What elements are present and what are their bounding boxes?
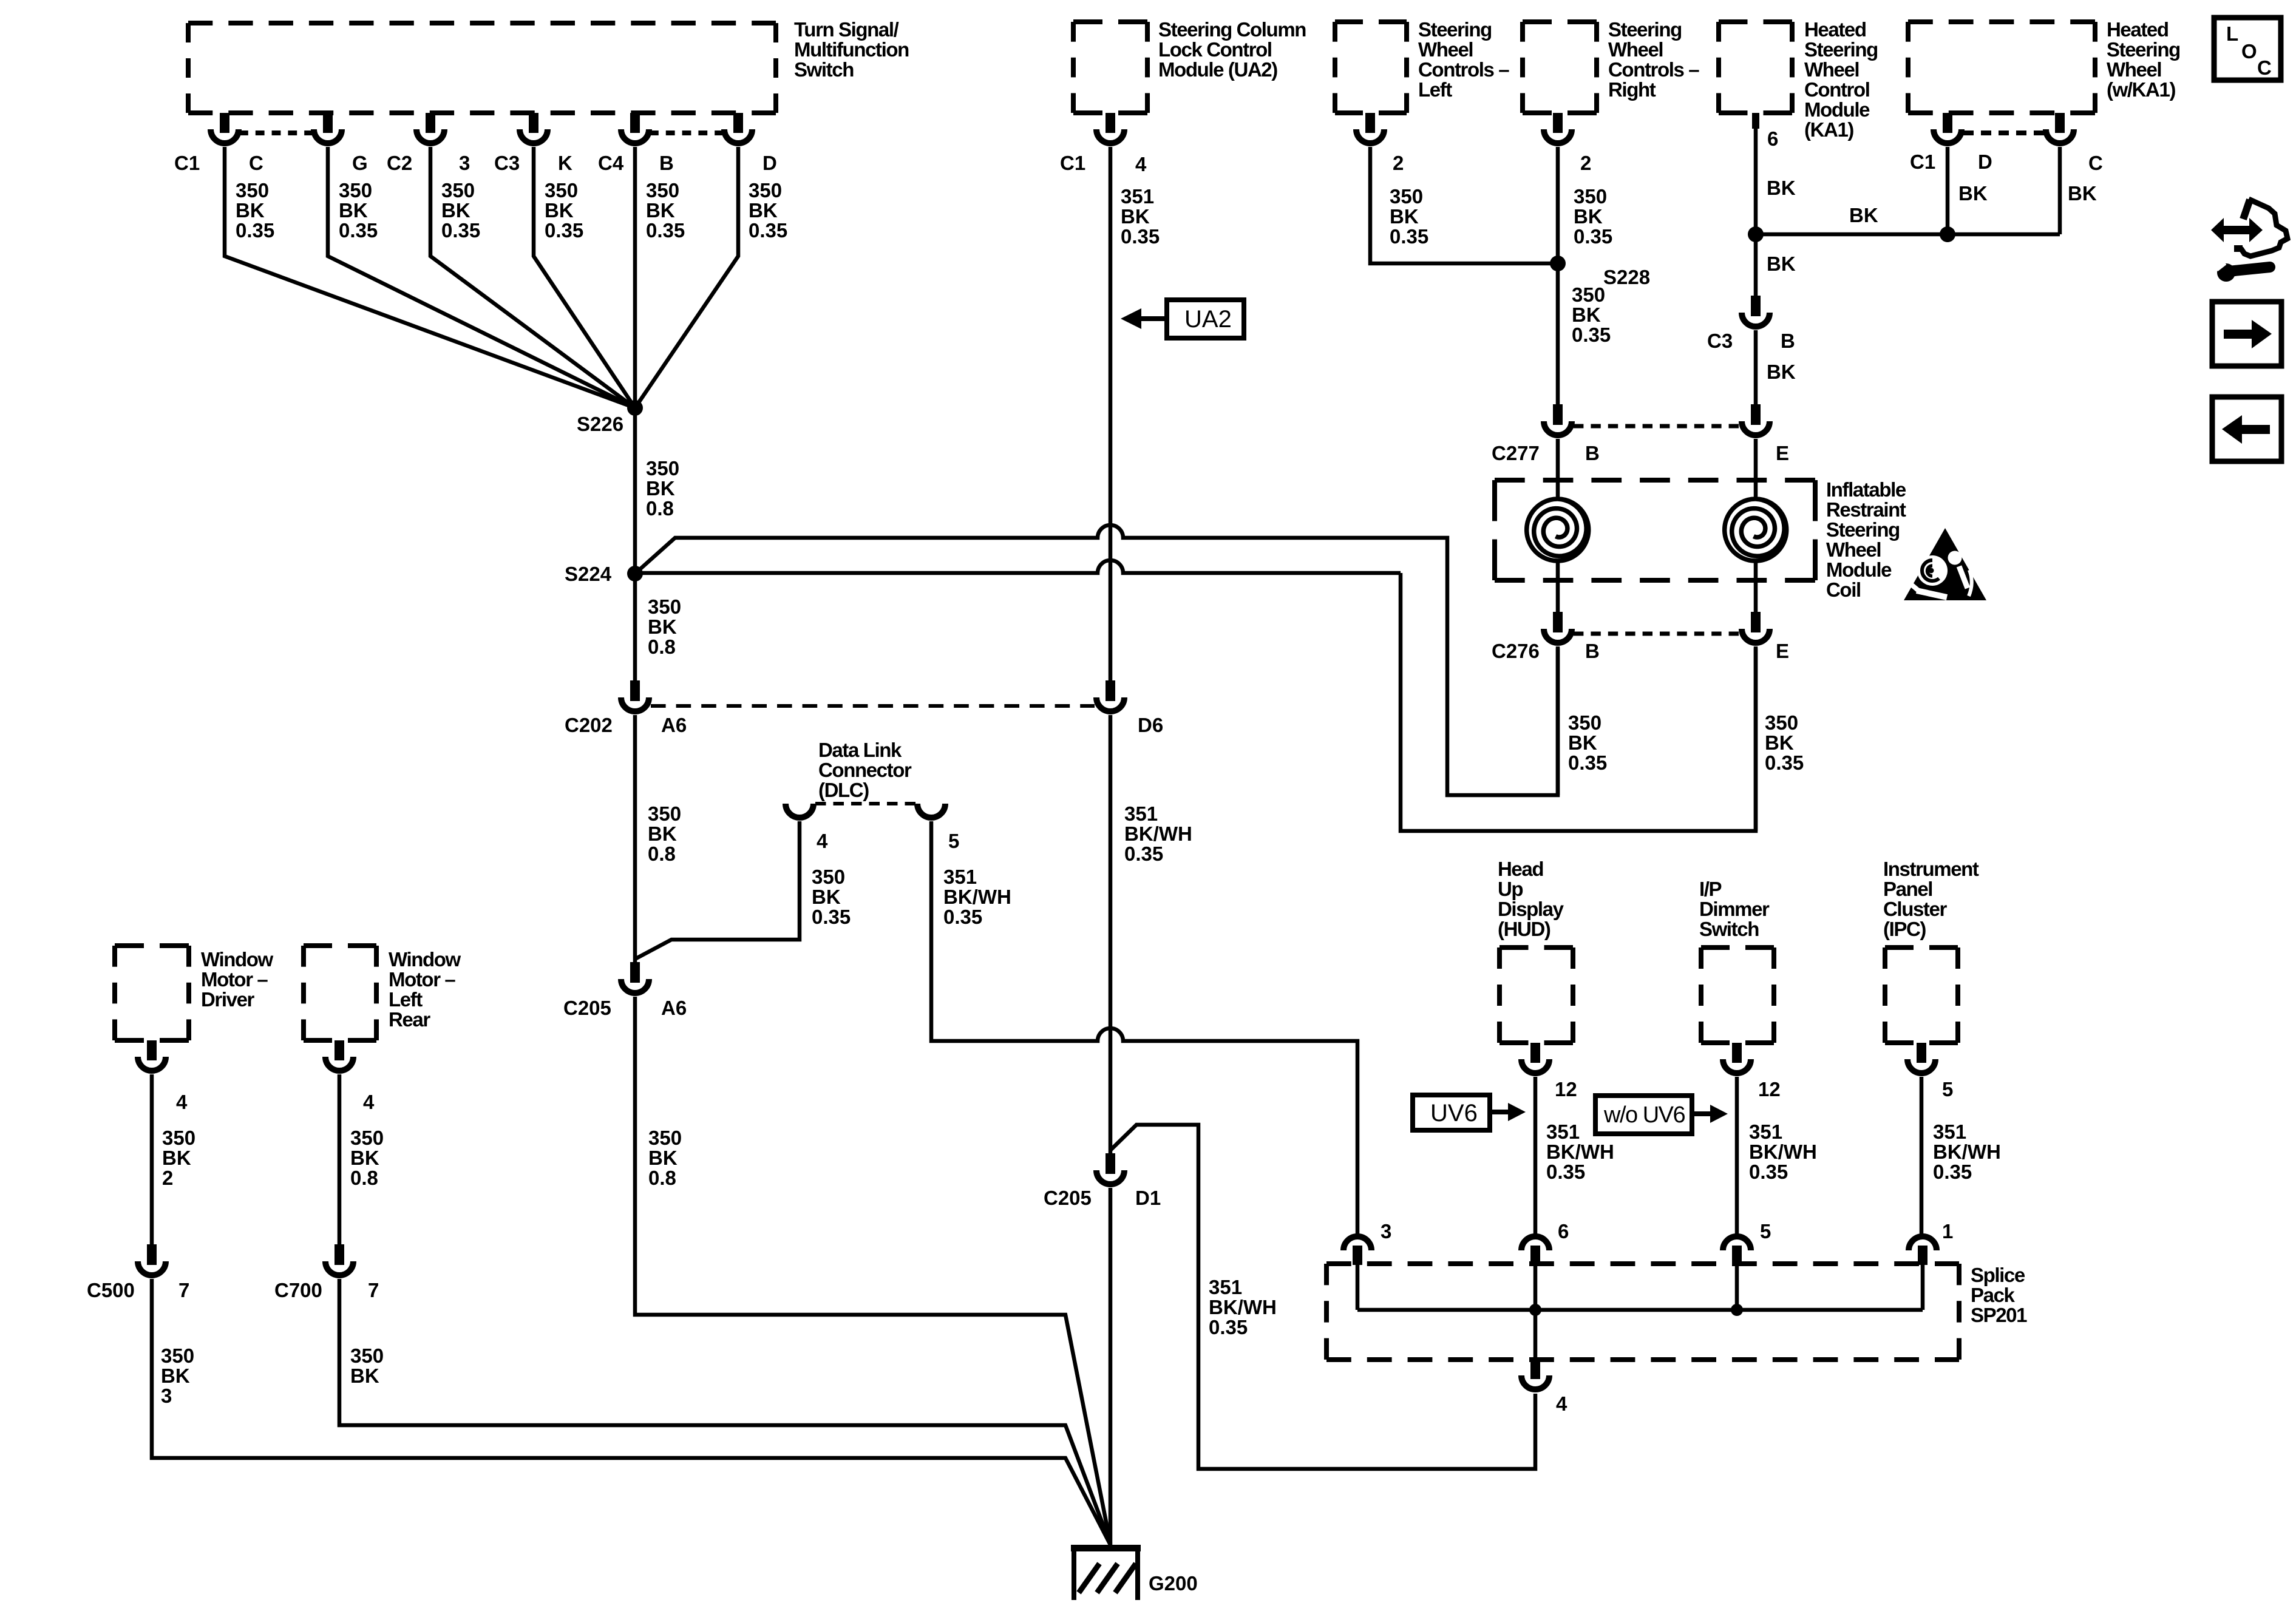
- svg-text:350: 350: [646, 179, 679, 202]
- svg-text:BK: BK: [1390, 205, 1419, 228]
- svg-text:BK: BK: [1849, 204, 1878, 226]
- svg-text:0.8: 0.8: [646, 497, 674, 520]
- svg-text:351: 351: [1749, 1120, 1782, 1143]
- svg-text:351: 351: [1121, 185, 1154, 208]
- svg-text:BK/WH: BK/WH: [1209, 1296, 1277, 1318]
- svg-text:Multifunction: Multifunction: [794, 38, 909, 61]
- svg-text:Wheel: Wheel: [1804, 58, 1859, 81]
- svg-text:Head: Head: [1498, 858, 1543, 880]
- svg-text:Rear: Rear: [389, 1008, 430, 1031]
- svg-text:350: 350: [1572, 283, 1605, 306]
- svg-text:BK: BK: [162, 1147, 191, 1169]
- svg-text:C: C: [2088, 152, 2103, 174]
- svg-text:0.8: 0.8: [648, 1167, 676, 1189]
- svg-text:D6: D6: [1138, 714, 1163, 736]
- svg-text:C4: C4: [598, 152, 624, 174]
- svg-text:Turn Signal/: Turn Signal/: [794, 18, 899, 41]
- svg-text:0.35: 0.35: [545, 219, 583, 242]
- svg-text:0.35: 0.35: [749, 219, 787, 242]
- svg-text:Motor –: Motor –: [201, 968, 268, 991]
- svg-text:BK: BK: [1765, 731, 1794, 754]
- svg-text:BK: BK: [648, 1147, 678, 1169]
- svg-text:Wheel: Wheel: [1418, 38, 1473, 61]
- svg-text:Lock Control: Lock Control: [1158, 38, 1272, 61]
- svg-text:D: D: [763, 152, 777, 174]
- svg-text:BK: BK: [2068, 182, 2097, 205]
- svg-text:G: G: [352, 152, 368, 174]
- svg-text:Wheel: Wheel: [1826, 538, 1881, 561]
- svg-text:Display: Display: [1498, 898, 1564, 920]
- svg-text:Module (UA2): Module (UA2): [1158, 58, 1277, 81]
- svg-text:Module: Module: [1826, 558, 1892, 581]
- svg-text:BK: BK: [1767, 177, 1796, 199]
- svg-text:5: 5: [948, 830, 959, 852]
- svg-text:BK/WH: BK/WH: [1933, 1141, 2001, 1163]
- svg-text:7: 7: [178, 1279, 189, 1301]
- svg-text:(w/KA1): (w/KA1): [2107, 78, 2175, 101]
- svg-text:BK: BK: [1958, 182, 1988, 205]
- svg-text:w/o UV6: w/o UV6: [1603, 1102, 1685, 1128]
- svg-text:Dimmer: Dimmer: [1699, 898, 1770, 920]
- svg-text:B: B: [1585, 640, 1600, 662]
- svg-text:O: O: [2241, 40, 2257, 63]
- svg-text:Wheel: Wheel: [2107, 58, 2161, 81]
- svg-text:BK: BK: [1568, 731, 1597, 754]
- svg-text:BK: BK: [350, 1364, 379, 1387]
- svg-text:0.35: 0.35: [236, 219, 274, 242]
- svg-text:BK: BK: [1767, 361, 1796, 383]
- svg-text:BK: BK: [1767, 253, 1796, 275]
- svg-text:C: C: [2257, 56, 2272, 79]
- svg-text:Steering: Steering: [1608, 18, 1682, 41]
- svg-text:350: 350: [812, 866, 845, 888]
- svg-text:350: 350: [648, 595, 681, 618]
- svg-text:4: 4: [176, 1091, 188, 1113]
- svg-text:C1: C1: [1910, 151, 1935, 173]
- svg-text:BK: BK: [350, 1147, 379, 1169]
- svg-text:C500: C500: [87, 1279, 135, 1301]
- svg-text:B: B: [1781, 330, 1795, 352]
- svg-text:C2: C2: [387, 152, 412, 174]
- svg-text:BK/WH: BK/WH: [1124, 822, 1192, 845]
- svg-text:Steering: Steering: [1418, 18, 1492, 41]
- svg-text:3: 3: [161, 1385, 172, 1407]
- svg-text:Left: Left: [389, 988, 423, 1011]
- svg-text:4: 4: [1556, 1392, 1567, 1415]
- svg-text:BK: BK: [749, 199, 778, 222]
- svg-text:Steering: Steering: [1826, 518, 1900, 541]
- svg-text:351: 351: [1546, 1120, 1580, 1143]
- svg-text:Heated: Heated: [1804, 18, 1866, 41]
- svg-text:Steering: Steering: [2107, 38, 2180, 61]
- svg-text:G200: G200: [1149, 1572, 1198, 1595]
- svg-text:Steering Column: Steering Column: [1158, 18, 1306, 41]
- svg-text:4: 4: [1135, 153, 1147, 175]
- svg-text:6: 6: [1558, 1220, 1569, 1242]
- svg-text:Window: Window: [389, 948, 461, 971]
- svg-text:0.35: 0.35: [1546, 1161, 1585, 1183]
- svg-text:Module: Module: [1804, 98, 1870, 121]
- svg-text:BK: BK: [1572, 303, 1601, 326]
- svg-text:S228: S228: [1603, 266, 1650, 288]
- svg-text:B: B: [659, 152, 674, 174]
- svg-text:Steering: Steering: [1804, 38, 1878, 61]
- svg-text:BK: BK: [648, 822, 677, 845]
- svg-text:2: 2: [162, 1167, 173, 1189]
- svg-text:Motor –: Motor –: [389, 968, 455, 991]
- svg-text:350: 350: [749, 179, 782, 202]
- svg-text:350: 350: [339, 179, 372, 202]
- svg-text:BK: BK: [236, 199, 265, 222]
- svg-text:Data Link: Data Link: [818, 739, 902, 761]
- svg-text:0.35: 0.35: [1209, 1316, 1248, 1338]
- svg-text:S224: S224: [565, 563, 612, 585]
- svg-text:350: 350: [646, 457, 679, 480]
- svg-text:(KA1): (KA1): [1804, 118, 1853, 141]
- svg-text:5: 5: [1760, 1220, 1771, 1242]
- svg-text:0.35: 0.35: [441, 219, 480, 242]
- svg-text:C3: C3: [494, 152, 520, 174]
- svg-text:350: 350: [441, 179, 475, 202]
- svg-text:Instrument: Instrument: [1883, 858, 1979, 880]
- svg-text:Inflatable: Inflatable: [1826, 478, 1906, 501]
- svg-text:Left: Left: [1418, 78, 1452, 101]
- svg-text:350: 350: [648, 1127, 682, 1149]
- svg-text:BK/WH: BK/WH: [1749, 1141, 1817, 1163]
- svg-text:BK: BK: [545, 199, 574, 222]
- svg-text:6: 6: [1767, 127, 1778, 150]
- svg-text:12: 12: [1555, 1078, 1577, 1100]
- svg-text:C205: C205: [563, 997, 611, 1019]
- svg-text:0.35: 0.35: [812, 906, 851, 928]
- svg-text:(IPC): (IPC): [1883, 918, 1926, 940]
- svg-text:A6: A6: [661, 997, 687, 1019]
- svg-text:BK/WH: BK/WH: [1546, 1141, 1614, 1163]
- svg-text:350: 350: [350, 1127, 384, 1149]
- svg-text:351: 351: [1933, 1120, 1966, 1143]
- svg-text:BK: BK: [1121, 205, 1150, 228]
- svg-text:4: 4: [817, 830, 828, 852]
- svg-text:0.35: 0.35: [943, 906, 982, 928]
- svg-text:BK: BK: [161, 1364, 190, 1387]
- svg-text:350: 350: [350, 1344, 384, 1367]
- svg-text:350: 350: [1568, 711, 1601, 734]
- svg-text:2: 2: [1393, 152, 1404, 174]
- svg-text:C700: C700: [274, 1279, 322, 1301]
- svg-text:(DLC): (DLC): [818, 779, 869, 801]
- svg-text:Connector: Connector: [818, 759, 912, 781]
- svg-text:B: B: [1585, 442, 1600, 464]
- svg-text:BK: BK: [646, 477, 675, 500]
- svg-text:0.35: 0.35: [1933, 1161, 1972, 1183]
- svg-text:UA2: UA2: [1184, 306, 1232, 333]
- svg-text:Wheel: Wheel: [1608, 38, 1663, 61]
- svg-text:Control: Control: [1804, 78, 1870, 101]
- svg-text:Switch: Switch: [1699, 918, 1759, 940]
- svg-text:BK: BK: [441, 199, 470, 222]
- svg-text:BK: BK: [648, 615, 677, 638]
- svg-text:Controls –: Controls –: [1608, 58, 1699, 81]
- svg-text:C205: C205: [1044, 1187, 1092, 1209]
- svg-text:D1: D1: [1135, 1187, 1161, 1209]
- svg-text:350: 350: [1574, 185, 1607, 208]
- svg-text:A6: A6: [661, 714, 687, 736]
- svg-text:Heated: Heated: [2107, 18, 2169, 41]
- svg-text:S226: S226: [577, 413, 623, 435]
- svg-text:350: 350: [236, 179, 269, 202]
- svg-text:K: K: [558, 152, 572, 174]
- svg-text:2: 2: [1580, 152, 1591, 174]
- svg-text:Switch: Switch: [794, 58, 854, 81]
- svg-text:E: E: [1776, 442, 1789, 464]
- svg-text:351: 351: [943, 866, 977, 888]
- svg-text:BK: BK: [812, 886, 841, 908]
- svg-text:Restraint: Restraint: [1826, 498, 1906, 521]
- svg-text:0.35: 0.35: [1572, 324, 1611, 346]
- svg-text:0.35: 0.35: [1574, 225, 1612, 248]
- svg-text:0.35: 0.35: [1124, 842, 1163, 865]
- svg-text:C277: C277: [1492, 442, 1540, 464]
- svg-text:(HUD): (HUD): [1498, 918, 1550, 940]
- svg-text:UV6: UV6: [1430, 1100, 1478, 1127]
- svg-text:0.35: 0.35: [1121, 225, 1160, 248]
- svg-text:350: 350: [1390, 185, 1423, 208]
- svg-text:C202: C202: [565, 714, 613, 736]
- svg-text:0.35: 0.35: [1568, 751, 1607, 774]
- svg-text:Cluster: Cluster: [1883, 898, 1947, 920]
- svg-text:C: C: [249, 152, 263, 174]
- svg-text:BK/WH: BK/WH: [943, 886, 1011, 908]
- svg-text:3: 3: [1381, 1220, 1391, 1242]
- svg-text:C3: C3: [1707, 330, 1733, 352]
- svg-text:0.35: 0.35: [1765, 751, 1804, 774]
- svg-text:0.35: 0.35: [1390, 225, 1428, 248]
- svg-text:BK: BK: [646, 199, 675, 222]
- svg-text:350: 350: [545, 179, 578, 202]
- svg-text:5: 5: [1942, 1078, 1953, 1100]
- svg-text:7: 7: [368, 1279, 379, 1301]
- svg-text:Driver: Driver: [201, 988, 255, 1011]
- svg-text:4: 4: [363, 1091, 375, 1113]
- svg-text:350: 350: [161, 1344, 194, 1367]
- svg-text:Up: Up: [1498, 878, 1523, 900]
- svg-text:Panel: Panel: [1883, 878, 1932, 900]
- svg-text:BK: BK: [339, 199, 368, 222]
- svg-text:I/P: I/P: [1699, 878, 1722, 900]
- svg-text:BK: BK: [1574, 205, 1603, 228]
- svg-text:Window: Window: [201, 948, 273, 971]
- svg-text:350: 350: [1765, 711, 1798, 734]
- svg-text:0.35: 0.35: [339, 219, 378, 242]
- svg-text:0.8: 0.8: [350, 1167, 378, 1189]
- svg-text:350: 350: [648, 802, 681, 825]
- svg-text:0.35: 0.35: [646, 219, 685, 242]
- svg-text:350: 350: [162, 1127, 195, 1149]
- svg-text:12: 12: [1758, 1078, 1781, 1100]
- svg-text:L: L: [2226, 22, 2238, 45]
- svg-text:Splice: Splice: [1971, 1264, 2025, 1286]
- svg-text:C276: C276: [1492, 640, 1540, 662]
- svg-text:0.35: 0.35: [1749, 1161, 1788, 1183]
- svg-text:E: E: [1776, 640, 1789, 662]
- svg-text:351: 351: [1124, 802, 1158, 825]
- svg-text:C1: C1: [1060, 152, 1085, 174]
- svg-text:SP201: SP201: [1971, 1304, 2027, 1326]
- svg-text:351: 351: [1209, 1276, 1242, 1298]
- svg-text:1: 1: [1942, 1220, 1953, 1242]
- svg-text:C1: C1: [174, 152, 200, 174]
- svg-text:0.8: 0.8: [648, 636, 676, 658]
- svg-text:Coil: Coil: [1826, 578, 1861, 601]
- svg-text:3: 3: [459, 152, 470, 174]
- svg-text:Pack: Pack: [1971, 1284, 2016, 1306]
- svg-text:Controls –: Controls –: [1418, 58, 1509, 81]
- svg-text:D: D: [1978, 151, 1992, 173]
- svg-text:Right: Right: [1608, 78, 1656, 101]
- svg-text:0.8: 0.8: [648, 842, 676, 865]
